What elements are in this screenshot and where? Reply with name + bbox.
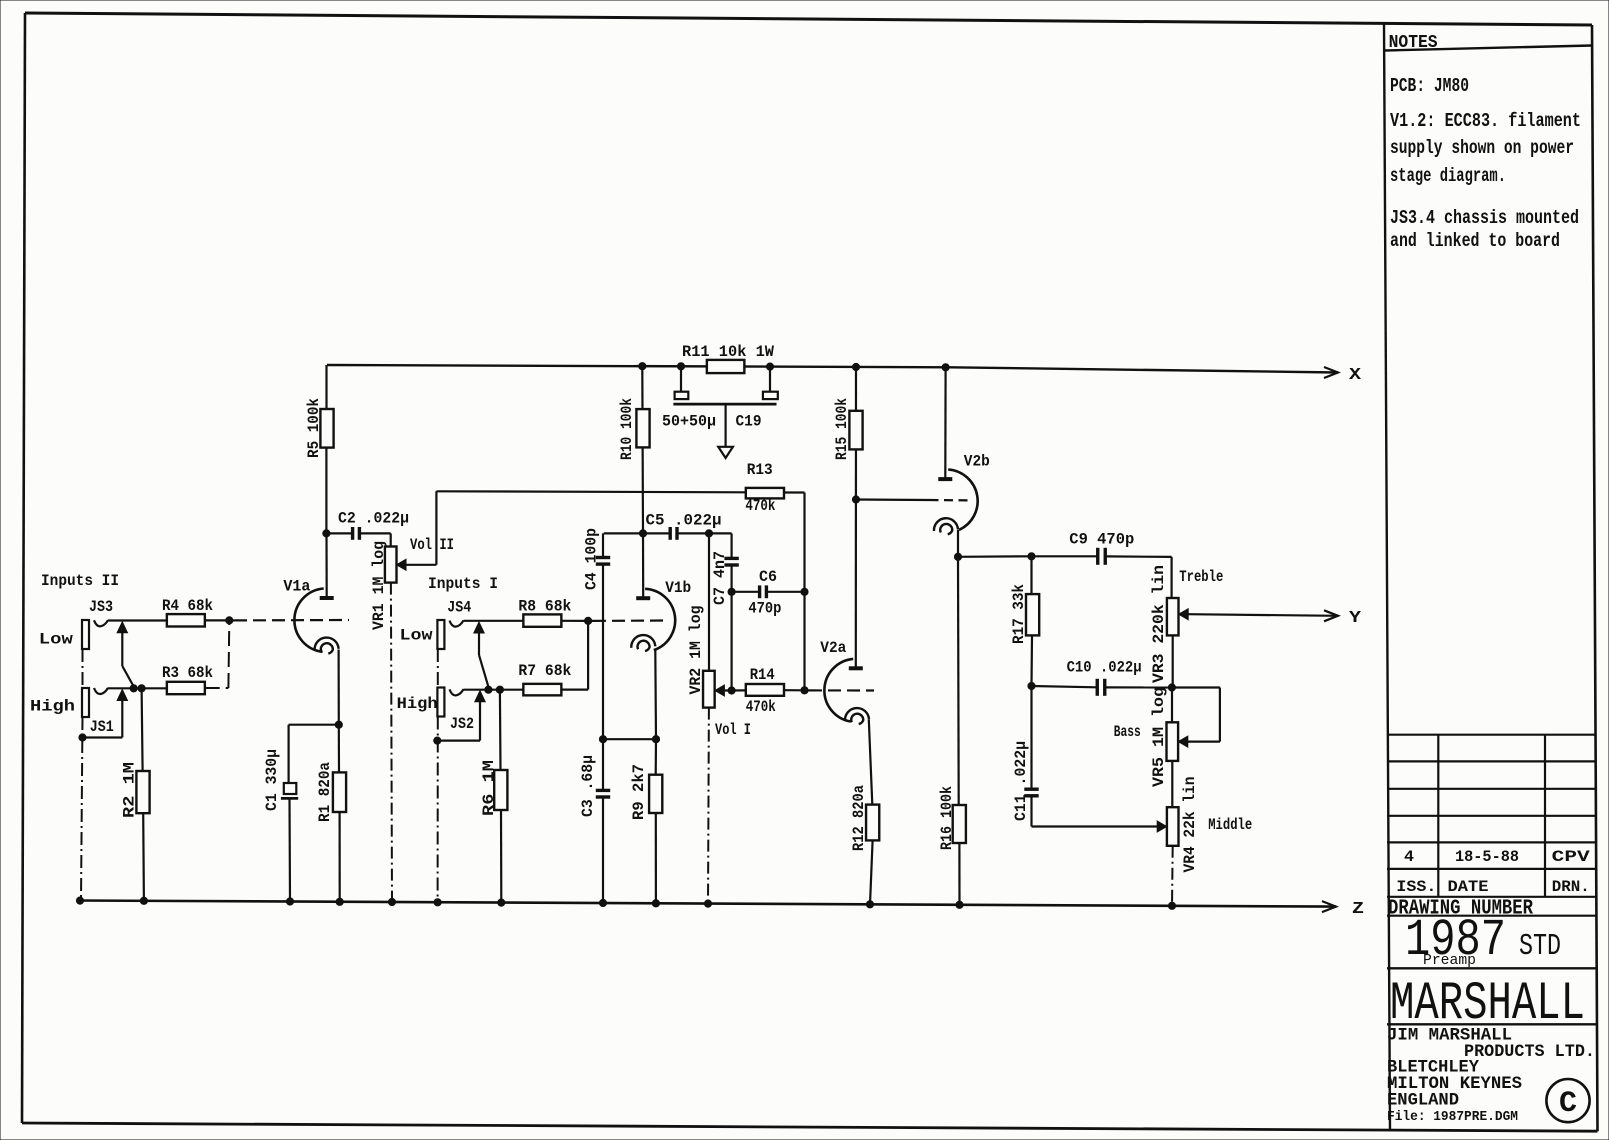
capacitor C9 [1032,531,1172,565]
label JS3 [89,598,113,616]
svg-text:JS4: JS4 [447,599,471,617]
note V1.2 line1 [1390,110,1581,132]
label Low II [39,631,73,649]
resistor R2 [121,688,150,904]
resistor R11 [677,343,774,373]
capacitor C4 [583,528,644,739]
node Z arrow [1322,900,1364,919]
note JS3.4 line2 [1390,230,1560,252]
svg-text:supply shown on power: supply shown on power [1390,137,1574,159]
svg-text:C19: C19 [736,413,762,431]
svg-text:V1b: V1b [665,579,691,597]
resistor R9 [630,739,662,907]
jack JS2 contact [450,689,464,695]
label Vol II [410,536,454,554]
V1b plate lead [639,530,646,598]
resistor R5 [305,365,334,533]
resistor R16 [938,557,966,909]
node JS2 junction [464,686,523,693]
jack JS4 contact [450,620,464,626]
svg-text:JS3.4 chassis mounted: JS3.4 chassis mounted [1390,207,1579,229]
copyright logo [1546,1079,1589,1122]
wire C6 node to R14 wire [728,592,735,694]
triode V2b [934,453,990,535]
svg-text:V2b: V2b [964,453,990,471]
svg-text:ENGLAND: ENGLAND [1387,1091,1459,1111]
triode V2a [820,639,869,724]
company BLETCHLEY [1387,1058,1479,1078]
label Vol I [715,721,751,739]
resistor R7 [518,662,571,695]
svg-text:VR3 220k lin: VR3 220k lin [1150,565,1168,683]
VR2 bottom return [704,708,711,908]
svg-text:C3 .68μ: C3 .68μ [579,755,597,817]
svg-text:Y: Y [1349,609,1362,628]
svg-text:C11 .022μ: C11 .022μ [1012,741,1030,821]
file name [1387,1110,1518,1125]
label JS2 [450,715,474,733]
V1a cathode lead [335,650,342,729]
svg-text:Preamp: Preamp [1423,952,1476,969]
node X rail [327,365,1338,373]
wire R7 out riser [562,621,588,690]
resistor R17 [1010,556,1039,689]
V2b cathode lead [954,530,961,560]
svg-text:50+50μ: 50+50μ [662,413,716,431]
svg-text:JS1: JS1 [90,718,114,736]
svg-text:ISS.: ISS. [1396,878,1436,896]
svg-text:C10 .022μ: C10 .022μ [1067,659,1142,677]
svg-text:R13: R13 [747,461,773,479]
svg-text:R15 100k: R15 100k [833,398,851,460]
node X arrow [1324,366,1362,385]
label Inputs II [41,572,119,590]
svg-text:V1.2: ECC83. filament: V1.2: ECC83. filament [1390,110,1581,132]
jack JS1 sleeve [82,688,89,717]
svg-text:Middle: Middle [1208,816,1252,834]
notes title [1384,33,1592,53]
svg-text:R6 1M: R6 1M [480,760,498,816]
pot VR1 [370,533,436,630]
pot VR5 bass [1150,687,1188,807]
svg-text:DATE: DATE [1448,878,1489,896]
svg-text:R12 820a: R12 820a [850,785,868,851]
revision header row [1396,878,1589,896]
capacitor C11 [1012,686,1157,827]
svg-text:C7 4n7: C7 4n7 [711,551,729,605]
right panel divider [1384,24,1390,1131]
switch JS1 [83,690,128,738]
svg-text:V1a: V1a [283,578,310,596]
svg-text:470p: 470p [748,600,781,618]
label Low I [400,627,433,645]
resistor R12 [850,720,879,908]
wire cathode follower out [958,553,1035,560]
node Y arrow [1324,609,1362,628]
VR1 bottom return [388,583,395,906]
svg-text:R14: R14 [750,666,775,684]
V2b grid wire [852,496,970,503]
svg-text:VR2 1M log: VR2 1M log [687,606,705,695]
svg-text:R17 33k: R17 33k [1010,584,1028,644]
svg-text:Inputs I: Inputs I [428,575,498,593]
switch JS2 [437,691,485,741]
note PCB [1390,75,1469,97]
svg-text:VR1 1M log: VR1 1M log [370,541,388,630]
svg-text:Vol I: Vol I [715,721,751,739]
inputs II shield line [76,649,86,904]
note V1.2 line3 [1390,165,1506,187]
node JS1 junction [108,685,167,692]
wire cathode to C1 [289,724,339,726]
svg-text:VR4 22k lin: VR4 22k lin [1181,777,1199,873]
svg-text:R1 820a: R1 820a [316,762,334,822]
jack JS3 sleeve [82,620,89,649]
label JS4 [447,599,471,617]
resistor R14 [746,666,784,716]
V1b grid wire [588,619,666,622]
wire VR1 wiper to R13 [436,491,745,565]
company MILTON KEYNES [1387,1074,1522,1094]
V1b cathode lead [652,650,659,743]
svg-text:C6: C6 [759,568,777,586]
svg-text:R11 10k 1W: R11 10k 1W [682,343,774,361]
svg-text:470k: 470k [745,497,775,515]
note JS3.4 line1 [1390,207,1579,229]
svg-text:C9 470p: C9 470p [1069,531,1134,549]
svg-text:C1 330μ: C1 330μ [263,749,281,811]
capacitor C7 [709,533,739,605]
resistor R1 [316,725,346,906]
svg-text:Vol II: Vol II [410,536,454,554]
label High I [397,695,438,713]
title block lines [1387,916,1596,1025]
capacitor C3 [579,739,610,906]
svg-text:Treble: Treble [1179,568,1223,586]
resistor R13 [745,461,784,515]
switch JS4 [474,622,489,687]
wire JS3 tip [108,619,167,621]
svg-text:PCB: JM80: PCB: JM80 [1390,75,1469,97]
resistor R15 [833,363,863,668]
drawing number STD [1519,929,1561,964]
wire JS4 tip [464,620,523,622]
svg-text:STD: STD [1519,929,1561,964]
svg-text:R9 2k7: R9 2k7 [630,764,648,820]
node Z rail [78,901,1336,907]
label Inputs I [428,575,498,593]
ground [718,447,733,458]
svg-text:Low: Low [400,627,433,645]
V2a grid wire [805,689,875,691]
svg-text:stage diagram.: stage diagram. [1390,165,1506,187]
jack JS1 contact [94,688,108,694]
svg-text:C: C [1559,1087,1577,1121]
svg-text:Low: Low [39,631,73,649]
company JIM MARSHALL [1387,1026,1512,1046]
resistor R4 [162,597,213,627]
svg-text:Z: Z [1352,900,1364,919]
svg-text:4: 4 [1404,848,1414,866]
svg-text:18-5-88: 18-5-88 [1455,848,1519,866]
node Y wire [1187,614,1338,616]
svg-text:V2a: V2a [820,639,846,657]
label R3 [162,664,213,682]
svg-text:470k: 470k [746,698,776,716]
revision table grid [1387,735,1596,897]
revision row 4 [1404,848,1590,866]
label JS1 [90,718,114,736]
svg-text:X: X [1349,366,1362,385]
capacitor C1 [263,725,298,905]
svg-text:Inputs II: Inputs II [41,572,119,590]
capacitor C19 [662,366,778,447]
svg-text:DRN.: DRN. [1552,878,1590,896]
label Bass [1114,723,1141,741]
company ENGLAND [1387,1091,1459,1111]
MARSHALL logo text [1390,974,1585,1035]
svg-text:PRODUCTS LTD.: PRODUCTS LTD. [1464,1042,1595,1062]
svg-text:C4 100p: C4 100p [583,528,601,590]
svg-text:R5 100k: R5 100k [305,398,323,458]
resistor R8 [518,598,571,627]
svg-text:R2 1M: R2 1M [121,762,139,818]
svg-text:JS3: JS3 [89,598,113,616]
svg-text:VR5 1M log: VR5 1M log [1150,687,1168,787]
V2b plate lead [942,364,949,479]
label Middle [1208,816,1252,834]
svg-text:and linked to board: and linked to board [1390,230,1560,252]
svg-text:High: High [30,698,75,716]
resistor R10 [618,363,650,534]
svg-text:R16 100k: R16 100k [938,786,956,850]
capacitor C2 [323,510,409,540]
jack JS3 contact [94,620,108,626]
svg-text:C5 .022μ: C5 .022μ [646,512,722,530]
svg-text:CPV: CPV [1552,848,1591,866]
switch JS3 [117,622,134,687]
wire cathode to C3/C4 [599,736,656,743]
svg-text:High: High [397,695,438,713]
V1a grid wire [229,619,349,622]
VR5 wiper loop [1172,688,1220,742]
wire R8 out [562,617,592,624]
pot VR3 treble [1150,557,1188,691]
svg-text:R3 68k: R3 68k [162,664,213,682]
svg-text:R8 68k: R8 68k [518,598,571,616]
VR4 bottom return [1168,846,1175,910]
svg-text:R10 100k: R10 100k [618,398,636,460]
resistor R3 [167,682,205,694]
svg-text:JS2: JS2 [450,715,474,733]
drawing number 1987 [1405,911,1506,970]
drawing number label [1388,898,1533,921]
capacitor C5 [643,512,722,540]
label Treble [1179,568,1223,586]
resistor R6 [480,690,507,907]
pot VR2 [687,533,746,707]
wire R13 to V2a grid node [784,493,805,691]
jack JS2 sleeve [437,688,444,717]
capacitor C6 [732,568,809,618]
triode V1b [631,579,691,651]
wire R4 out [205,617,233,624]
company PRODUCTS LTD. [1464,1042,1595,1062]
capacitor C10 [1032,659,1172,696]
label High II [30,698,75,716]
svg-text:File: 1987PRE.DGM: File: 1987PRE.DGM [1387,1110,1518,1125]
triode V1a [283,533,338,653]
note V1.2 line2 [1390,137,1574,159]
pot VR4 middle [1157,777,1199,873]
drawing number Preamp [1423,952,1476,969]
wire R3 out riser [205,620,230,688]
svg-text:R7 68k: R7 68k [518,662,571,680]
svg-text:Bass: Bass [1114,723,1141,741]
inputs I shield line [434,649,442,906]
svg-text:R4 68k: R4 68k [162,597,213,615]
jack JS4 sleeve [437,620,444,649]
svg-text:C2 .022μ: C2 .022μ [338,510,409,528]
wire R14 out [784,687,808,694]
